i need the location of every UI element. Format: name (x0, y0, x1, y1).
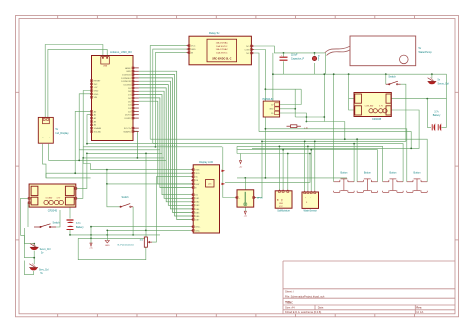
svg-text:MPU5: MPU5 (257, 198, 263, 200)
svg-text:CR2045: CR2045 (48, 210, 58, 213)
svg-text:10A 125VAC: 10A 125VAC (216, 48, 229, 51)
svg-text:D1/TX: D1/TX (125, 115, 132, 117)
svg-text:NO: NO (246, 46, 250, 48)
svg-text:110uF: 110uF (291, 54, 298, 57)
svg-text:Display LCD: Display LCD (199, 161, 213, 164)
svg-text:Button: Button (364, 172, 372, 175)
svg-text:+: + (305, 197, 306, 199)
svg-text:SoilMoisture: SoilMoisture (277, 210, 290, 213)
svg-text:Size: A4: Size: A4 (285, 306, 295, 310)
svg-text:GND: GND (279, 203, 284, 205)
svg-text:D10/SS: D10/SS (124, 85, 132, 87)
svg-text:SCL/Tx: SCL/Tx (124, 128, 132, 130)
svg-text:VIN: VIN (94, 97, 98, 99)
svg-text:GND: GND (94, 94, 99, 96)
svg-text:Servo_Ctrl: Servo_Ctrl (438, 83, 450, 86)
svg-text:D5: D5 (271, 113, 273, 115)
svg-text:A0: A0 (276, 199, 279, 201)
svg-text:VCC: VCC (191, 46, 196, 48)
svg-text:Switch: Switch (122, 196, 130, 199)
svg-text:SDA/A4: SDA/A4 (94, 127, 102, 130)
svg-text:Switch: Switch (388, 75, 396, 78)
svg-text:10A 250VAC: 10A 250VAC (216, 42, 229, 45)
svg-text:D0: D0 (280, 199, 282, 201)
svg-text:COIN_BAT: COIN_BAT (365, 105, 375, 108)
svg-text:Relay 5v: Relay 5v (209, 31, 220, 35)
svg-text:RESET: RESET (94, 81, 102, 83)
svg-text:Rev:: Rev: (416, 306, 422, 310)
svg-text:VSS: VSS (195, 170, 200, 172)
svg-text:GND: GND (105, 245, 110, 247)
svg-text:SCL/A5: SCL/A5 (94, 130, 102, 133)
svg-text:+5V: +5V (94, 87, 98, 89)
svg-text:Id: 1/1: Id: 1/1 (416, 310, 424, 314)
svg-text:NC: NC (246, 53, 250, 55)
svg-text:s: s (239, 198, 240, 200)
svg-text:Serv_Ctrl: Serv_Ctrl (39, 268, 49, 271)
svg-text:KiCad E.D.A. eeschema (6.0.8): KiCad E.D.A. eeschema (6.0.8) (285, 310, 321, 314)
svg-text:Capacitor_P: Capacitor_P (291, 57, 305, 60)
svg-text:CR2045: CR2045 (372, 118, 382, 121)
svg-text:3.7v: 3.7v (434, 110, 439, 113)
svg-text:Button: Button (414, 172, 422, 175)
svg-text:3.7v: 3.7v (76, 222, 81, 225)
svg-text:u.16: u.16 (304, 128, 308, 130)
svg-text:SDA/Rx: SDA/Rx (123, 130, 131, 133)
svg-text:D13/SCK: D13/SCK (122, 74, 131, 76)
svg-text:WaterSensor: WaterSensor (304, 210, 318, 213)
svg-text:GND: GND (94, 90, 99, 92)
svg-text:Arduino_UNO_R3: Arduino_UNO_R3 (110, 50, 132, 54)
svg-text:Button: Button (340, 172, 348, 175)
svg-text:D0/RX: D0/RX (125, 118, 132, 120)
svg-text:SRC-05VDC-SL-C: SRC-05VDC-SL-C (212, 59, 231, 61)
svg-text:LED+: LED+ (195, 227, 201, 229)
svg-text:10A 28VDC: 10A 28VDC (216, 52, 228, 55)
svg-text:Ind_Display: Ind_Display (56, 132, 70, 135)
svg-text:AREF: AREF (125, 67, 131, 70)
svg-text:COLBAT: COLBAT (45, 197, 53, 200)
svg-text:Motor: Motor (317, 55, 320, 61)
svg-text:Button: Button (389, 172, 397, 175)
svg-text:R/W: R/W (195, 184, 199, 186)
svg-text:Sheet: /: Sheet: / (285, 289, 294, 293)
svg-text:HW02A 5v: HW02A 5v (263, 98, 275, 101)
svg-text:Switch: Switch (53, 222, 61, 225)
svg-text:D12/MISO: D12/MISO (121, 78, 131, 80)
svg-text:File: SchematicsProject.kicad_: File: SchematicsProject.kicad_sch (285, 294, 325, 298)
svg-text:LED-: LED- (195, 230, 200, 232)
svg-text:GND: GND (191, 49, 196, 51)
svg-text:D11/MOSI: D11/MOSI (121, 81, 131, 83)
svg-text:VDD: VDD (195, 173, 200, 175)
svg-text:Title:: Title: (285, 300, 293, 304)
svg-text:USB: USB (103, 65, 108, 67)
svg-text:WaterPump: WaterPump (419, 51, 433, 54)
svg-text:10A 30VDC: 10A 30VDC (216, 45, 228, 48)
svg-text:COM: COM (245, 49, 250, 51)
svg-text:Battery: Battery (76, 226, 84, 229)
svg-text:Servo_Ctrl: Servo_Ctrl (40, 248, 51, 251)
svg-text:Battery: Battery (433, 114, 441, 117)
svg-text:N_Potentiometer: N_Potentiometer (118, 244, 135, 247)
svg-text:GND: GND (269, 109, 274, 111)
svg-text:GND: GND (126, 71, 131, 73)
svg-text:Date:: Date: (318, 306, 324, 310)
